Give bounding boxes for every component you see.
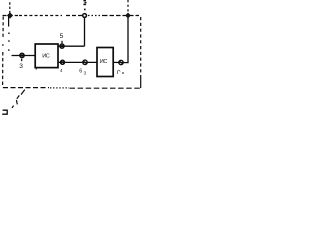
svg-text:3: 3 <box>19 63 23 70</box>
input wire to IC1 <box>12 55 36 57</box>
svg-text:ИС: ИС <box>42 54 50 60</box>
svg-text:3: 3 <box>84 71 87 76</box>
terminal X3 <box>20 53 24 57</box>
enclosure dashed top edge <box>3 15 141 17</box>
svg-text:6: 6 <box>79 68 82 74</box>
terminal stub above node N1 <box>9 2 11 13</box>
svg-text:4: 4 <box>60 68 63 73</box>
terminal X7 <box>119 60 123 64</box>
terminal stub above node N3 <box>127 0 129 13</box>
terminal X6 <box>83 60 87 64</box>
terminal X5 <box>60 44 64 48</box>
figure pointer squiggle <box>12 90 25 108</box>
svg-text:ИС: ИС <box>100 59 108 65</box>
label P1 <box>117 69 124 76</box>
terminal X4 <box>60 60 64 64</box>
node N3 on top rail <box>126 13 131 18</box>
node N2 on top rail <box>83 14 87 18</box>
IC2 box <box>97 48 113 77</box>
wire IC1 bottom output to IC2 <box>58 61 97 63</box>
tick at IC1 bottom-left corner <box>35 68 37 70</box>
terminal stub above node N2 <box>83 0 86 10</box>
wire IC1 top output to corner <box>58 45 85 47</box>
enclosure dashed right edge <box>140 17 142 88</box>
svg-text:Ր: Ր <box>117 69 121 76</box>
riser from corner up to node N2 <box>84 17 86 46</box>
enclosure dashed bottom edge <box>3 87 141 90</box>
svg-text:5: 5 <box>60 33 64 40</box>
wire IC2 output to corner <box>113 17 128 63</box>
label 6-3 <box>79 68 86 75</box>
tick for label 5 <box>61 41 63 44</box>
IC1 box <box>35 44 58 68</box>
enclosure dashed left edge <box>2 17 5 88</box>
figure numeral 2 <box>2 110 7 114</box>
faint broken wire from node N1 down <box>8 17 9 51</box>
node N1 on top rail <box>8 13 13 18</box>
tick for label 3 <box>21 59 23 62</box>
